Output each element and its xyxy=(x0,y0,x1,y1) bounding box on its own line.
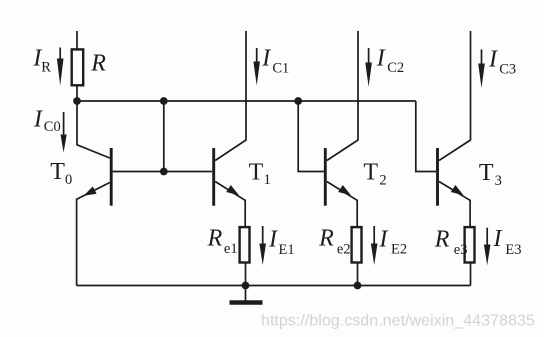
svg-text:T: T xyxy=(363,159,378,185)
svg-text:C0: C0 xyxy=(44,119,61,135)
wire: T0 emitter down to bottom rail xyxy=(76,199,78,286)
svg-text:I: I xyxy=(376,46,386,72)
wire: T0-T1 base line xyxy=(113,171,213,173)
current arrow IR xyxy=(59,48,61,62)
current arrow IC3 xyxy=(481,49,483,66)
svg-text:C1: C1 xyxy=(272,60,289,76)
svg-text:E2: E2 xyxy=(391,242,407,258)
resistor Re3 xyxy=(465,227,475,262)
svg-text:3: 3 xyxy=(495,173,502,189)
wire: T1 collector vertical (IC1) xyxy=(245,31,247,141)
resistor R xyxy=(72,49,84,85)
svg-text:R: R xyxy=(434,227,450,253)
svg-text:E1: E1 xyxy=(279,242,295,258)
resistor Re2 xyxy=(352,227,362,262)
wire: Re2 bottom to ground rail xyxy=(357,263,359,286)
wire: drop from rail to T0/T1 base line xyxy=(163,101,165,172)
svg-text:I: I xyxy=(378,227,388,253)
current arrow IC0 xyxy=(63,112,65,137)
svg-text:e3: e3 xyxy=(454,242,468,258)
wire: rail corner down to T3 base xyxy=(416,101,436,172)
wire: T2 emitter to Re2 xyxy=(356,200,358,228)
svg-text:R: R xyxy=(90,51,106,77)
transistor T2 xyxy=(324,148,327,206)
svg-text:R: R xyxy=(318,225,334,251)
node: rail / T2 base drop junction xyxy=(294,97,302,105)
node: base line junction xyxy=(160,168,168,176)
current arrow IC1 xyxy=(256,48,258,64)
transistor T1 xyxy=(212,148,215,206)
current arrow IC2 xyxy=(368,48,370,65)
svg-text:T: T xyxy=(479,160,494,186)
svg-text:I: I xyxy=(493,226,503,252)
svg-text:I: I xyxy=(33,107,43,133)
ground xyxy=(245,286,247,302)
svg-text:https://blog.csdn.net/weixin_4: https://blog.csdn.net/weixin_44378835 xyxy=(261,312,535,330)
current arrow IE2 xyxy=(373,226,375,246)
svg-text:R: R xyxy=(41,60,51,76)
svg-text:e2: e2 xyxy=(337,241,351,257)
node: rail / base drop junction xyxy=(160,97,168,105)
node: R bottom / rail junction xyxy=(73,97,81,105)
wire: T2 collector vertical (IC2) xyxy=(357,31,359,141)
wire: top rail (base bus) horizontal xyxy=(77,100,416,102)
svg-text:0: 0 xyxy=(65,172,72,188)
svg-text:C3: C3 xyxy=(499,61,516,77)
wire: T3 emitter to Re3 xyxy=(469,200,471,228)
transistor T3 xyxy=(436,148,439,206)
svg-text:1: 1 xyxy=(264,172,271,188)
svg-text:e1: e1 xyxy=(224,241,238,257)
current arrow IE3 xyxy=(486,228,488,247)
node: Re2 / bottom rail junction xyxy=(354,282,362,290)
svg-text:2: 2 xyxy=(379,173,386,189)
wire: R bottom to top rail node xyxy=(76,87,78,102)
svg-text:I: I xyxy=(488,47,498,73)
svg-text:E3: E3 xyxy=(505,242,521,258)
wire: bottom ground rail xyxy=(77,285,471,287)
svg-text:T: T xyxy=(249,159,264,185)
node: Re1 / ground junction xyxy=(242,282,250,290)
wire: T1 emitter to Re1 xyxy=(244,200,246,228)
svg-text:I: I xyxy=(268,226,278,252)
wire: drop from rail to T2 base xyxy=(298,101,324,172)
wire: T0 collector from rail node down xyxy=(77,101,110,158)
svg-text:T: T xyxy=(50,159,65,185)
svg-text:C2: C2 xyxy=(387,60,404,76)
current arrow IE1 xyxy=(262,226,264,246)
wire: T3 collector vertical (IC3) xyxy=(470,31,472,141)
resistor Re1 xyxy=(240,227,250,262)
transistor T0 xyxy=(110,148,113,206)
svg-text:R: R xyxy=(207,225,223,251)
wire: Re1 bottom to ground rail xyxy=(245,263,247,286)
svg-text:I: I xyxy=(261,46,271,72)
wire: IR input vertical from top to resistor R xyxy=(76,31,78,49)
wire: Re3 bottom to ground rail xyxy=(470,263,472,286)
